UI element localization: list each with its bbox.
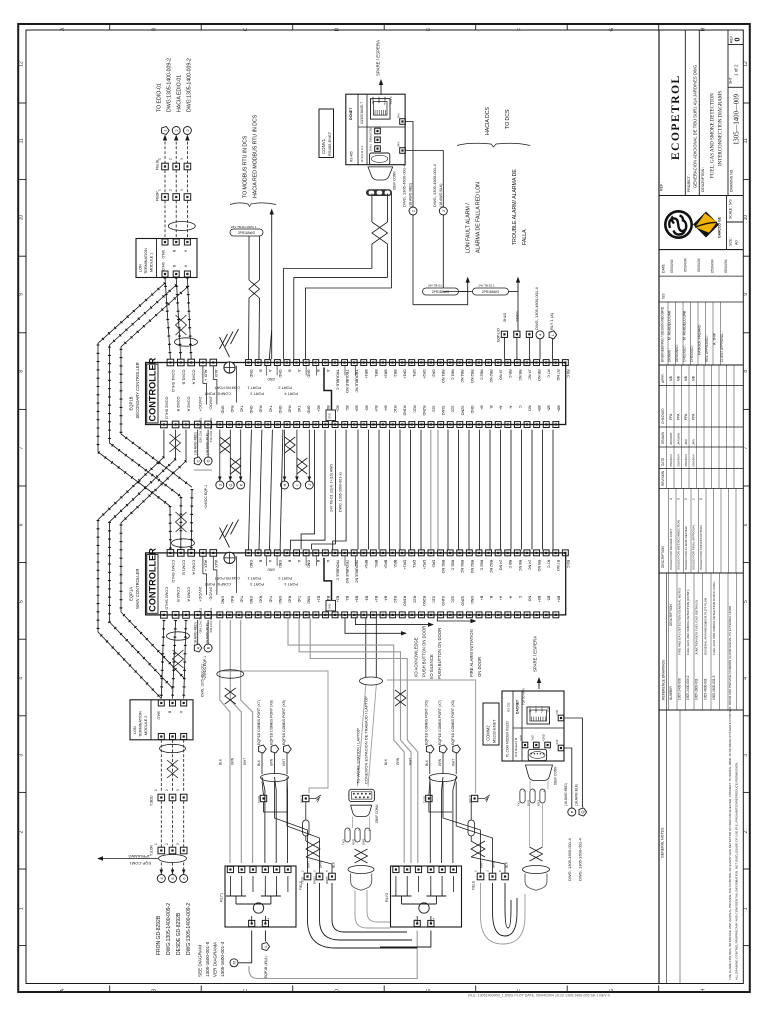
svg-text:BR1-: BR1- [374, 370, 378, 379]
svg-text:B5+: B5+ [537, 406, 541, 413]
svg-text:3: 3 [176, 789, 180, 791]
svg-text:R1C: R1C [393, 406, 397, 414]
svg-text:S2NO: S2NO [460, 406, 464, 416]
modem RJ45 [527, 707, 550, 724]
controller EQP1B bottom terminal row [161, 421, 168, 428]
CONV1 DB9 hood below [368, 167, 393, 180]
svg-text:HACIA RED MODBUS RTU IN DCS: HACIA RED MODBUS RTU IN DCS [253, 114, 259, 198]
svg-text:GND: GND [220, 596, 224, 604]
svg-text:GND: GND [249, 370, 253, 378]
svg-text:1305-4600-001: 1305-4600-001 [703, 678, 707, 700]
svg-text:PUSH BUTTON ON DOOR: PUSH BUTTON ON DOOR [422, 626, 427, 677]
U-turn cable group right [481, 883, 526, 944]
svg-text:PL COM MODEM RS232: PL COM MODEM RS232 [506, 721, 510, 757]
svg-text:PORT 4: PORT 4 [284, 582, 298, 586]
relay RLY2 box [391, 866, 462, 927]
svg-text:BR1+: BR1+ [364, 560, 368, 569]
svg-text:B4+: B4+ [374, 596, 378, 603]
svg-text:AUX +: AUX + [203, 560, 208, 572]
work station pair from EQP1A [365, 618, 367, 677]
svg-text:MB: MB [692, 375, 696, 381]
svg-text:SCALE : N/S: SCALE : N/S [729, 199, 733, 219]
svg-text:FBLIN: FBLIN [156, 159, 160, 170]
svg-text:8: 8 [743, 370, 749, 373]
svg-text:GND: GND [278, 596, 282, 604]
svg-text:RB2 NC: RB2 NC [489, 560, 493, 574]
svg-text:DCNET: DCNET [349, 107, 353, 120]
connector tags to EDIO [162, 127, 170, 135]
svg-text:FBOP: FBOP [156, 191, 160, 201]
svg-text:GND: GND [278, 560, 282, 568]
svg-text:0: 0 [735, 38, 742, 42]
svg-text:3: 3 [176, 843, 180, 845]
CONV1 converter unit [346, 94, 405, 165]
svg-text:2 RD-: 2 RD- [534, 706, 538, 713]
svg-text:6: 6 [19, 523, 25, 526]
brace HACIA DCS [457, 143, 530, 147]
svg-text:RB NC: RB NC [518, 370, 522, 382]
svg-text:S1NO: S1NO [441, 596, 445, 606]
svg-text:GND: GND [328, 413, 332, 419]
svg-text:PPA: PPA [669, 413, 673, 420]
svg-text:DR1+: DR1+ [403, 370, 407, 379]
svg-text:9: 9 [743, 293, 749, 296]
route to IO silence [355, 618, 427, 625]
svg-text:8: 8 [19, 370, 25, 373]
nested L routes to EQP1B top [283, 269, 372, 360]
RLY1 output wires and tags [238, 931, 252, 963]
svg-text:NO: NO [528, 406, 532, 412]
title block outline [658, 30, 660, 984]
svg-text:05/04/04: 05/04/04 [684, 258, 688, 272]
svg-text:BR2+: BR2+ [383, 560, 387, 569]
svg-text:05/04/04: 05/04/04 [670, 259, 674, 273]
svg-text:EQP1B COMBS PORT (X8): EQP1B COMBS PORT (X8) [269, 700, 273, 745]
svg-text:3: 3 [180, 189, 184, 191]
modem ON wire to tag [564, 718, 583, 808]
svg-text:GND: GND [369, 126, 373, 134]
svg-text:EQP1B COMBS PORT (X9): EQP1B COMBS PORT (X9) [282, 700, 286, 745]
svg-text:GND: GND [249, 596, 253, 604]
svg-text:6 F24-: 6 F24- [389, 97, 393, 105]
svg-text:B3-: B3- [364, 596, 368, 602]
svg-text:GENERAL NOTES: GENERAL NOTES [661, 827, 665, 858]
svg-text:JAR/JAB: JAR/JAB [677, 433, 681, 445]
svg-text:GND: GND [249, 406, 253, 414]
svg-text:DR1-: DR1- [412, 370, 416, 379]
interband pass-through wires left [249, 430, 252, 550]
svg-text:RB C: RB C [508, 370, 512, 379]
route to fire alarm initiation [437, 618, 469, 621]
svg-text:COM RS PORT: COM RS PORT [214, 576, 240, 580]
grey config trio to RLY1 [220, 620, 230, 863]
ecopetrol cell [684, 30, 686, 196]
svg-text:GENERACIÓN ADICIONAL DE TIBÚ S: GENERACIÓN ADICIONAL DE TIBÚ SUR1 41A JA… [693, 65, 698, 188]
interband staircase jogs [301, 430, 314, 550]
svg-text:A0: A0 [735, 240, 739, 245]
svg-text:GARCCO GE: GARCCO GE [718, 216, 722, 238]
svg-text:LON: LON [139, 264, 143, 272]
svg-text:BLK: BLK [332, 861, 336, 868]
svg-text:DB(A): DB(A) [369, 134, 373, 142]
svg-text:G: G [228, 483, 233, 486]
svg-text:RB NO: RB NO [537, 560, 541, 572]
left column wires ellipse to terminals [262, 782, 264, 796]
interband grey wires [430, 430, 432, 550]
svg-text:ISSUED FOR INTERCONNECTION: ISSUED FOR INTERCONNECTION [677, 520, 681, 570]
svg-text:05/04/04: 05/04/04 [724, 259, 728, 273]
svg-text:J: J [307, 484, 312, 486]
ground symbol [309, 798, 316, 800]
svg-text:S1C: S1C [432, 406, 436, 413]
svg-text:ECOPETROL: ECOPETROL [670, 74, 682, 160]
svg-text:MB: MB [677, 375, 681, 381]
svg-text:PORT 4: PORT 4 [284, 392, 298, 396]
svg-text:WHT: WHT [409, 758, 413, 765]
svg-text:TO MODBUS RTU IN DCS: TO MODBUS RTU IN DCS [243, 135, 249, 198]
svg-text:GND: GND [328, 604, 332, 610]
chassis ground EQP1A [220, 528, 230, 548]
svg-text:24V: 24V [397, 142, 401, 147]
svg-text:1PR16AWG: 1PR16AWG [128, 854, 150, 859]
wires LON2 down to terminal rows [160, 740, 162, 791]
svg-text:P: P [569, 810, 574, 813]
svg-text:GND5: GND5 [325, 876, 329, 884]
wires EDIO tags to FBLIN [164, 142, 166, 164]
svg-text:GND: GND [278, 370, 282, 378]
controller EQP1B top terminal row [167, 359, 174, 366]
svg-text:VER DIAGRAMA: VER DIAGRAMA [213, 941, 218, 977]
svg-text:ON: ON [397, 114, 401, 119]
svg-text:CONV1: CONV1 [321, 138, 326, 154]
svg-text:TD/TDD MAIN: TD/TDD MAIN [522, 688, 526, 705]
svg-text:24VDC-: 24VDC- [209, 397, 214, 412]
svg-text:DESDE GD-8292B: DESDE GD-8292B [176, 912, 182, 955]
svg-text:PORT 2: PORT 2 [278, 576, 292, 580]
svg-text:SHLD: SHLD [161, 250, 165, 259]
svg-text:TxD: TxD [297, 406, 301, 413]
svg-text:S2C: S2C [451, 406, 455, 413]
svg-text:EQP-LIO: EQP-LIO [497, 328, 501, 342]
svg-text:24VDC+: 24VDC+ [198, 397, 203, 413]
svg-text:2: 2 [165, 843, 169, 845]
svg-text:TROUBLE C: TROUBLE C [335, 560, 339, 581]
svg-text:GRN: GRN [396, 757, 400, 765]
svg-text:CHECKED: CHECKED [661, 408, 665, 424]
svg-text:DB9F CONN: DB9F CONN [393, 171, 397, 190]
CONV1 ON wire to tag [405, 122, 413, 207]
svg-text:PORT 2: PORT 2 [278, 386, 292, 390]
pentagon trio wires to RLY1 [262, 777, 265, 863]
svg-text:1: 1 [743, 907, 749, 910]
modbus wire pair with twist [248, 236, 250, 247]
svg-text:2: 2 [165, 789, 169, 791]
svg-text:FILE: 13051400009_1.DWG P: FILE: 13051400009_1.DWG PLOT DATE: 05/04… [468, 994, 610, 998]
svg-text:ENGINEERING / DESIGN RECORD: ENGINEERING / DESIGN RECORD [661, 306, 665, 362]
svg-text:B4-: B4- [384, 406, 388, 412]
svg-text:REFERENCE DRAWINGS: REFERENCE DRAWINGS [662, 659, 666, 700]
svg-text:DB9F CONN: DB9F CONN [375, 804, 379, 823]
svg-text:GND: GND [470, 406, 474, 414]
svg-text:ISSUED FOR REVIEW COPY: ISSUED FOR REVIEW COPY [669, 528, 673, 570]
svg-text:WHT: WHT [307, 861, 311, 868]
svg-text:GND: GND [307, 370, 311, 378]
svg-text:B: B [172, 265, 176, 267]
svg-text:RB1 NC: RB1 NC [460, 560, 464, 574]
svg-text:2PR18AWG: 2PR18AWG [482, 290, 500, 294]
svg-text:R7 NO: R7 NO [556, 560, 560, 571]
svg-text:D: D [206, 459, 211, 462]
svg-text:FIELD: FIELD [472, 880, 476, 890]
svg-text:PPA: PPA [677, 413, 681, 420]
svg-text:TERMINATION: TERMINATION [144, 248, 148, 274]
svg-text:DWG:1305-1400-009-2: DWG:1305-1400-009-2 [166, 903, 172, 955]
svg-text:GRN: GRN [270, 758, 274, 766]
svg-text:ALARMA DE FALLA RED LON: ALARMA DE FALLA RED LON [476, 182, 482, 253]
svg-text:RxD: RxD [230, 406, 234, 413]
svg-text:(18 AWG BLK): (18 AWG BLK) [575, 784, 579, 806]
svg-text:(18 AWG RED): (18 AWG RED) [194, 432, 198, 455]
svg-text:DWG, 1305-4600-001: DWG, 1305-4600-001 [201, 664, 205, 697]
svg-text:B: B [206, 646, 211, 649]
svg-text:SEE DIAGRAM: SEE DIAGRAM [198, 945, 203, 977]
svg-text:1 of 2: 1 of 2 [734, 64, 739, 76]
CONV1 cable pair down with twist [371, 194, 373, 223]
svg-text:05/04/04: 05/04/04 [692, 454, 696, 466]
svg-text:JAR: JAR [692, 438, 696, 445]
svg-text:GND: GND [361, 839, 365, 845]
general notes strip [679, 710, 681, 984]
svg-text:H: H [701, 27, 707, 31]
svg-text:FUEL GAS AND SMOKE DETECTION (: FUEL GAS AND SMOKE DETECTION (CONT.) [686, 590, 690, 655]
svg-text:R2C: R2C [412, 596, 416, 604]
svg-text:NUMBER: NUMBER [669, 685, 673, 700]
RLY2 output wires [258, 931, 417, 979]
svg-text:RB2 NC: RB2 NC [489, 370, 493, 384]
svg-text:24VDC: 24VDC [516, 311, 520, 322]
svg-text:ISSUED FOR CLIENT REVIEW: ISSUED FOR CLIENT REVIEW [684, 526, 688, 570]
svg-text:COM1 A: COM1 A [192, 560, 197, 575]
svg-text:DWG, 1305-4600-001-4: DWG, 1305-4600-001-4 [534, 287, 539, 330]
svg-text:B2+: B2+ [336, 406, 340, 413]
svg-text:RB C: RB C [508, 560, 512, 569]
svg-text:PROJECT :: PROJECT : [687, 174, 691, 192]
svg-text:24VDC+: 24VDC+ [198, 587, 203, 603]
svg-text:INTERCONNECTION DIAGRAMS: INTERCONNECTION DIAGRAMS [719, 91, 724, 166]
CONV1 ON terminal [400, 119, 406, 125]
svg-text:MAIN CONTROLLER: MAIN CONTROLLER [135, 569, 140, 609]
ground symbol [478, 798, 485, 800]
svg-text:WHT: WHT [243, 758, 247, 765]
svg-text:B2-: B2- [345, 596, 349, 602]
svg-text:WHT: WHT [451, 759, 455, 766]
controller EQP1A bold label [147, 555, 158, 614]
reference drawings table [659, 709, 743, 711]
CONV1 terminal column [375, 128, 381, 134]
svg-text:DR1-: DR1- [412, 560, 416, 569]
svg-text:D=9,6-N-8-1: D=9,6-N-8-1 [360, 145, 364, 162]
LON bus bundle trio 2 (EQP1B COM2 to LON2) [163, 430, 165, 457]
svg-text:SHLD: SHLD [503, 312, 507, 322]
svg-text:05/04/04: 05/04/04 [684, 454, 688, 466]
svg-text:PORT 1: PORT 1 [247, 386, 261, 390]
svg-text:CONTROLLER: CONTROLLER [148, 548, 158, 612]
COMM2 label box [483, 703, 499, 745]
svg-text:1 RD+: 1 RD+ [371, 97, 375, 105]
relay RLY1 top terminals [227, 866, 233, 872]
wires LON1 to controller EQP1B COM1 [165, 278, 170, 360]
svg-text:RB2 C: RB2 C [479, 370, 483, 381]
svg-text:(16 AWG RED): (16 AWG RED) [564, 783, 568, 806]
svg-text:DWG, 1305-1600-001-xx: DWG, 1305-1600-001-xx [339, 472, 343, 512]
CONV1 24V terminal [400, 148, 406, 154]
svg-text:24V TB-D1 1: 24V TB-D1 1 [428, 284, 445, 288]
svg-text:TO DCS: TO DCS [505, 109, 511, 129]
svg-text:1305-1400-008: 1305-1400-008 [678, 678, 682, 700]
svg-text:RB1 C: RB1 C [451, 560, 455, 571]
svg-text:HACIA DCS: HACIA DCS [485, 106, 491, 135]
svg-text:PORT 3: PORT 3 [250, 582, 264, 586]
svg-text:A+: A+ [499, 406, 503, 411]
svg-text:C: C [243, 988, 249, 992]
svg-text:GND: GND [278, 406, 282, 414]
svg-text:RLY2: RLY2 [385, 893, 389, 902]
svg-text:3: 3 [677, 498, 681, 500]
controller EQP1A outline [146, 553, 566, 615]
svg-text:B5+: B5+ [537, 596, 541, 603]
CONV1 RJ45 jack [371, 99, 391, 120]
svg-text:AUX +: AUX + [203, 370, 208, 382]
svg-text:Q: Q [580, 810, 585, 813]
svg-text:TxD: TxD [268, 406, 272, 413]
controller EQP1A bottom terminal row [161, 612, 168, 619]
svg-text:C: C [243, 27, 249, 31]
svg-text:+24VDC EQP-1: +24VDC EQP-1 [204, 485, 208, 509]
modem ON terminal [558, 715, 564, 721]
svg-text:R8 C: R8 C [566, 560, 570, 569]
svg-text:1305-1400-009-2: 1305-1400-009-2 [686, 675, 690, 700]
svg-text:B3+: B3+ [355, 406, 359, 413]
svg-text:C: C [518, 596, 522, 599]
svg-text:TO 24VDC PICT BLK: TO 24VDC PICT BLK [209, 608, 213, 633]
CONV1 label box [319, 109, 334, 158]
LON termination module 2 [130, 700, 193, 740]
svg-text:REV :: REV : [730, 34, 734, 43]
relay RLY2 contacts [395, 876, 397, 890]
CONV1 24V wire to tag [405, 151, 443, 207]
svg-text:DATE: DATE [662, 263, 666, 273]
right column wires ellipse to terminals [428, 782, 431, 796]
svg-text:0: 0 [699, 498, 703, 500]
relay RLY2 bottom terminals [416, 916, 418, 923]
svg-text:TO 24VDC PICT BLK: TO 24VDC PICT BLK [209, 418, 213, 443]
svg-text:GENERAL ARRANGEMENT PLOT PLAN: GENERAL ARRANGEMENT PLOT PLAN [703, 598, 707, 655]
svg-text:R2C: R2C [412, 406, 416, 414]
svg-text:10/100 BASE-T: 10/100 BASE-T [360, 102, 364, 124]
svg-text:DATE: DATE [661, 458, 665, 466]
svg-text:GND: GND [307, 406, 311, 414]
svg-text:R7 NO: R7 NO [556, 370, 560, 381]
svg-text:C: C [195, 459, 200, 462]
svg-text:RxD: RxD [288, 596, 292, 603]
cable pins center [345, 828, 350, 842]
svg-text:COM2 SHLD: COM2 SHLD [164, 587, 169, 610]
svg-text:EQP1B COMBS PORT (X7): EQP1B COMBS PORT (X7) [438, 700, 442, 745]
svg-text:RB1 NO: RB1 NO [441, 370, 445, 384]
svg-text:GND2: GND2 [313, 876, 317, 884]
modem DB9 hood below [526, 765, 553, 781]
svg-text:11: 11 [743, 138, 749, 143]
svg-text:K: K [238, 483, 243, 486]
svg-text:2: 2 [169, 158, 173, 160]
svg-text:DR2-: DR2- [431, 370, 435, 379]
route to IO acknowledge [345, 618, 400, 634]
svg-text:24 NC: 24 NC [527, 560, 531, 571]
svg-text:1305-1600-001-4: 1305-1600-001-4 [220, 941, 225, 977]
svg-text:SECONDARY CONTROLLER: SECONDARY CONTROLLER [135, 362, 140, 418]
shield pigtail [261, 774, 289, 782]
svg-text:(18 AWG BLK): (18 AWG BLK) [206, 623, 210, 645]
svg-text:TROUBLE ALARM/ ALARMA DE: TROUBLE ALARM/ ALARMA DE [512, 169, 518, 245]
controller EQP1A chassis terminal [224, 552, 235, 563]
modem cable twist [530, 847, 543, 861]
svg-text:G: G [609, 27, 615, 31]
svg-text:EQP-COM1: EQP-COM1 [129, 861, 151, 866]
svg-text:DWG, 1305-1600-001-4: DWG, 1305-1600-001-4 [578, 838, 583, 881]
svg-text:EQP1B: EQP1B [129, 396, 134, 410]
svg-text:10: 10 [19, 215, 25, 221]
svg-text:ON DOOR: ON DOOR [477, 657, 482, 677]
engineering record dividers [667, 302, 669, 365]
svg-text:CONFIG PORT: CONFIG PORT [204, 582, 231, 586]
svg-text:R1NO: R1NO [403, 596, 407, 606]
controller EQP1B bold label [147, 364, 158, 423]
svg-text:R7 C: R7 C [547, 370, 551, 379]
title block section dividers [659, 195, 743, 197]
svg-text:DWG, 1305-1600-001-4: DWG, 1305-1600-001-4 [567, 838, 572, 881]
svg-text:GND: GND [542, 734, 546, 740]
svg-text:HACIA EDIO-01: HACIA EDIO-01 [177, 75, 183, 112]
svg-text:SPARE / ESPERA: SPARE / ESPERA [376, 40, 381, 76]
svg-text:TxD: TxD [240, 596, 244, 603]
svg-text:24V TB-D1 1: 24V TB-D1 1 [479, 284, 496, 288]
revision date strip [659, 275, 743, 277]
svg-text:COM2 SHLD: COM2 SHLD [164, 397, 169, 420]
left column pill and twist to TB [303, 820, 309, 836]
svg-text:3: 3 [180, 158, 184, 160]
svg-text:RB1 NC: RB1 NC [460, 370, 464, 384]
svg-text:APPR: APPR [661, 374, 665, 383]
svg-text:D: D [335, 988, 341, 992]
svg-text:TXD: TXD [341, 839, 345, 845]
svg-text:A: A [195, 646, 200, 649]
svg-text:GRN: GRN [438, 758, 442, 766]
svg-text:GND: GND [220, 406, 224, 414]
svg-text:B3+: B3+ [355, 596, 359, 603]
svg-text:RLY 1 (A): RLY 1 (A) [549, 312, 554, 330]
svg-text:S2C: S2C [451, 596, 455, 603]
svg-text:12: 12 [743, 61, 749, 67]
svg-text:RB1 C: RB1 C [451, 370, 455, 381]
svg-text:BLK: BLK [505, 861, 509, 868]
svg-text:2PR16AWG: 2PR16AWG [238, 231, 256, 235]
svg-text:I/O ACKNOWLEDGE: I/O ACKNOWLEDGE [414, 637, 419, 677]
svg-text:AUX -: AUX - [214, 560, 219, 571]
svg-text:MB: MB [684, 375, 688, 381]
svg-text:EQP1A: EQP1A [129, 587, 134, 601]
svg-text:B4-: B4- [384, 596, 388, 602]
svg-text:R1NO: R1NO [403, 406, 407, 416]
